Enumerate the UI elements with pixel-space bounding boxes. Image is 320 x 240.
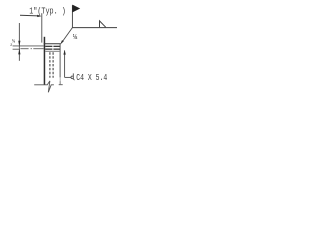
dimension arrowhead: [37, 15, 41, 17]
band 2 in box: [45, 49, 52, 50]
weld reference line: [72, 27, 117, 29]
small dimension up arrow: [18, 49, 20, 55]
background: [0, 0, 120, 100]
small dimension shaft: [18, 23, 20, 61]
box top line: [44, 43, 61, 45]
centerline dash-dot: [20, 48, 28, 50]
left lower line: [13, 48, 20, 50]
field weld flag pole: [71, 5, 73, 27]
hidden bolt line left: [49, 52, 51, 78]
right edge bottom tick: [59, 81, 61, 85]
box right edge: [59, 44, 61, 78]
left upper line: [13, 45, 44, 47]
channel label leader arrowhead: [63, 50, 65, 55]
channel label leader shaft: [64, 50, 66, 77]
extension line: [41, 13, 43, 42]
field weld flag: [72, 5, 80, 13]
band 3 in box (light): [45, 51, 60, 52]
box right edge lower faint: [59, 77, 61, 84]
dimension line: [20, 14, 38, 17]
svg-text:1"(Typ. ): 1"(Typ. ): [29, 6, 66, 16]
fillet weld symbol triangle: [100, 21, 106, 27]
channel section symbol: [73, 73, 74, 80]
weld leader diagonal: [61, 28, 72, 43]
weld leader arrowhead: [60, 40, 64, 44]
break line right segment: [59, 84, 63, 86]
hidden bolt line right: [52, 52, 54, 78]
band 1 in box: [45, 46, 52, 47]
break line left segment: [34, 81, 54, 92]
svg-text:C4 X 5.4: C4 X 5.4: [76, 72, 107, 83]
svg-text:⅛: ⅛: [12, 38, 15, 44]
web plate bar: [44, 37, 46, 85]
channel label leader foot: [65, 76, 72, 78]
small dimension down arrow: [18, 41, 20, 47]
